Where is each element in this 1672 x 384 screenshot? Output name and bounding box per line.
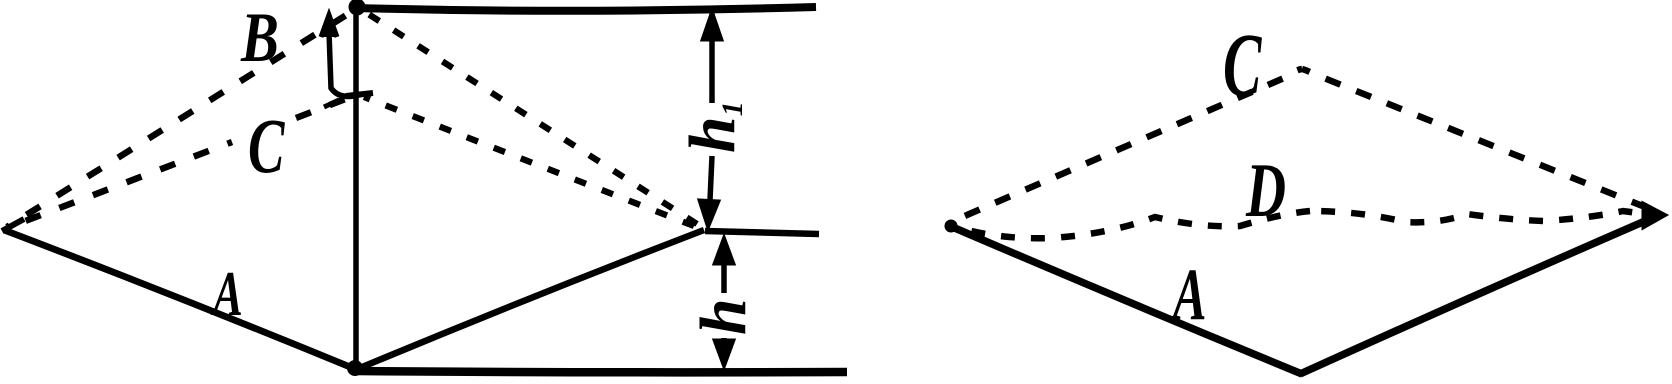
svg-text:A: A xyxy=(211,258,243,328)
svg-text:A: A xyxy=(1170,254,1207,336)
node: right figure right tip arrowhead xyxy=(1643,203,1666,228)
dashed line B: left half from left tip to top peak xyxy=(7,9,356,227)
node: h1 up arrowhead xyxy=(702,11,722,40)
wire: top horizontal reference line xyxy=(356,7,816,11)
node: h1 down arrowhead xyxy=(699,200,719,228)
svg-text:h: h xyxy=(687,298,760,335)
wire: h1 dimension line lower segment with down arrow xyxy=(709,156,712,222)
dashed wavy curve D of right figure: left half xyxy=(956,211,1310,238)
node: curved arrow head pointing up xyxy=(321,15,337,37)
node: h down arrowhead xyxy=(714,340,734,367)
svg-text:D: D xyxy=(1245,147,1286,233)
node: top vertex blob B peak xyxy=(349,0,366,16)
dashed line C: left half from label to mid peak xyxy=(296,98,348,118)
wire: h1 dimension line upper segment with up arrow xyxy=(709,14,715,103)
dashed line B: right half from top peak to right tip xyxy=(362,10,697,224)
dashed wavy curve D of right figure: right half xyxy=(1310,211,1652,222)
dashed line C: left half from left tip toward label xyxy=(7,142,232,228)
node: bottom vertex blob xyxy=(347,360,363,376)
wire: h dimension line upper segment with up arrow xyxy=(721,244,727,293)
wire: left figure solid span line A (left tip to centre bottom) xyxy=(4,230,355,369)
dashed line C: right half from mid peak to right tip xyxy=(364,97,694,226)
wire: middle horizontal reference line at right tip level xyxy=(705,231,819,234)
dashed curve C of right figure: left flank xyxy=(953,69,1302,221)
wire: right figure solid edge A right half xyxy=(1300,218,1652,374)
wire: centre vertical dimension line xyxy=(353,10,359,366)
wire: right figure solid edge A left half xyxy=(950,226,1302,374)
wire: curved arrow tail flick xyxy=(324,100,339,107)
wire: left figure solid span line (centre bottom to right tip) xyxy=(355,230,704,370)
node: right figure left tip blob xyxy=(945,220,958,233)
dashed curve C of right figure: right flank xyxy=(1302,69,1655,211)
wire: bottom horizontal reference line xyxy=(357,371,847,372)
svg-text:h1: h1 xyxy=(676,101,749,153)
svg-text:C: C xyxy=(1223,16,1263,115)
node: C peak tick on vertical line xyxy=(346,93,373,96)
svg-text:C: C xyxy=(248,102,285,189)
node: left tip arrow barb xyxy=(2,219,24,231)
wire: h dimension line lower segment with down arrow xyxy=(721,338,727,352)
wire: curved arrow from C peak up to B level xyxy=(329,32,362,96)
node: h up arrowhead xyxy=(714,237,734,264)
svg-text:B: B xyxy=(240,0,279,76)
